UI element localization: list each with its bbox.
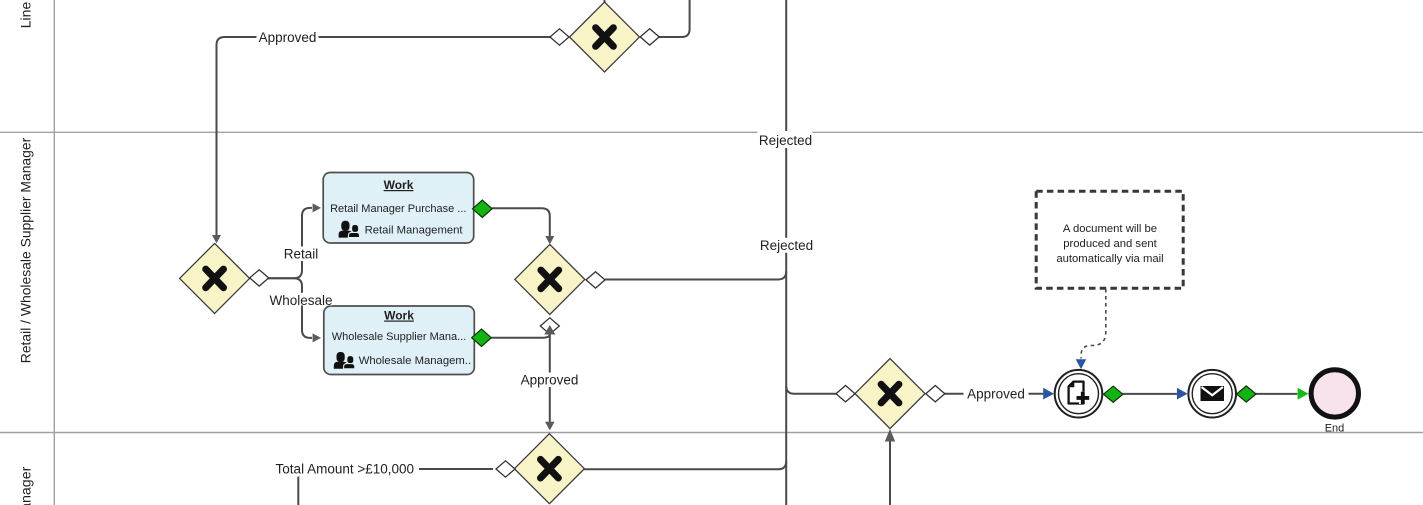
svg-text:Line: Line: [18, 2, 34, 29]
edge label Rejected (lower): [760, 238, 813, 253]
green out-marker diamond at task T2: [472, 329, 492, 346]
conditional marker diamond at top gateway right: [640, 29, 659, 45]
svg-text:End: End: [1325, 423, 1345, 435]
wire: stub into top gateway from above: [604, 0, 606, 3]
task T1 Retail Manager Purchase: [323, 173, 474, 244]
svg-text:Total Amount >£10,000: Total Amount >£10,000: [276, 462, 414, 477]
svg-text:Retail: Retail: [284, 246, 319, 261]
event E2 message (intermediate): [1188, 370, 1236, 418]
edge label Approved (right): [964, 387, 1029, 402]
conditional marker diamond at left gateway right: [250, 270, 269, 286]
wire: left gateway split to Wholesale task: [268, 278, 312, 338]
svg-text:Work: Work: [384, 309, 414, 323]
edge label Approved (middle): [519, 372, 581, 387]
conditional marker diamond at bottom gateway left: [496, 461, 515, 477]
annotation connector dashed: [1081, 289, 1106, 359]
conditional marker diamond at middle gateway right: [586, 272, 605, 288]
conditional marker diamond below middle gateway: [540, 318, 559, 334]
gateway G4 right (exclusive X): [855, 359, 925, 429]
svg-text:Retail Management: Retail Management: [365, 225, 464, 237]
edge label Wholesale: [269, 293, 332, 308]
conditional marker diamond at top gateway left: [550, 29, 569, 45]
green out-marker diamond at task T1: [473, 200, 493, 217]
gateway G2 left (exclusive X): [180, 243, 250, 313]
wire: trunk into right gateway: [786, 386, 837, 394]
svg-text:Wholesale Managem..: Wholesale Managem..: [359, 355, 471, 367]
svg-text:A document will be: A document will be: [1063, 223, 1157, 235]
wire: document event to message event: [1123, 393, 1177, 395]
edge label Approved (top): [257, 30, 319, 45]
svg-text:produced and sent: produced and sent: [1063, 238, 1157, 250]
gateway G1 top (exclusive X): [570, 2, 640, 72]
gateway G5 bottom (exclusive X): [514, 434, 584, 504]
wire: Approved from middle gateway down to bottom gateway: [549, 331, 551, 422]
event E3 End: [1311, 370, 1358, 435]
lane divider bottom (Retail / Finance lane boundary): [0, 432, 1423, 434]
svg-text:Work: Work: [384, 178, 414, 192]
edge label Retail: [283, 246, 320, 261]
svg-text:Retail / Wholesale Supplier Ma: Retail / Wholesale Supplier Manager: [18, 137, 34, 363]
edge label Total Amount >£10,000: [272, 462, 419, 477]
conditional marker diamond at right gateway left: [836, 386, 855, 402]
wire: message event to end event: [1255, 393, 1297, 395]
svg-text:Wholesale: Wholesale: [269, 293, 332, 308]
green out-marker diamond at message event: [1237, 386, 1256, 402]
wire: left gateway split to Retail task: [268, 208, 312, 278]
wire: top gateway right output going up: [659, 0, 690, 37]
edge label Rejected (upper): [758, 131, 813, 148]
event E1 document (intermediate): [1055, 370, 1103, 418]
wire: Retail task output into middle gateway: [492, 208, 550, 236]
svg-text:automatically via mail: automatically via mail: [1056, 253, 1163, 265]
svg-text:Rejected: Rejected: [759, 133, 812, 148]
gateway G3 middle (exclusive X): [515, 244, 585, 314]
svg-text:Rejected: Rejected: [760, 238, 813, 253]
conditional marker diamond at right gateway right: [926, 386, 945, 402]
lane divider top (Line / Retail lane boundary): [0, 131, 1423, 133]
svg-text:Retail Manager Purchase ...: Retail Manager Purchase ...: [330, 203, 466, 215]
svg-text:Approved: Approved: [967, 387, 1025, 402]
wire: Wholesale task output into middle gateway bottom: [492, 334, 550, 338]
task T2 Wholesale Supplier Manager: [324, 306, 475, 375]
svg-text:Finance Manager: Finance Manager: [19, 466, 35, 505]
annotation box: [1036, 191, 1183, 288]
green out-marker diamond at document event: [1104, 386, 1123, 402]
arrowhead into middle gateway from wholesale task: [544, 325, 555, 335]
wire: bottom gateway right output to trunk: [584, 461, 786, 469]
svg-text:Wholesale Supplier Mana...: Wholesale Supplier Mana...: [332, 331, 467, 343]
wire: right gateway to document event (Approved): [944, 393, 1044, 395]
wire: vertical trunk x=786: [785, 0, 787, 505]
svg-text:Approved: Approved: [259, 30, 317, 45]
task T2 people icon: [334, 352, 355, 369]
wire: Approved from top gateway to left gateway: [217, 37, 551, 236]
wire: Rejected from middle gateway to trunk: [605, 271, 786, 279]
lane label separator vertical: [53, 0, 55, 505]
svg-text:Approved: Approved: [521, 372, 579, 387]
wire: bottom input into right gateway: [889, 441, 891, 505]
wire: Total Amount edge into bottom gateway: [298, 469, 493, 505]
task T1 people icon: [339, 221, 360, 238]
